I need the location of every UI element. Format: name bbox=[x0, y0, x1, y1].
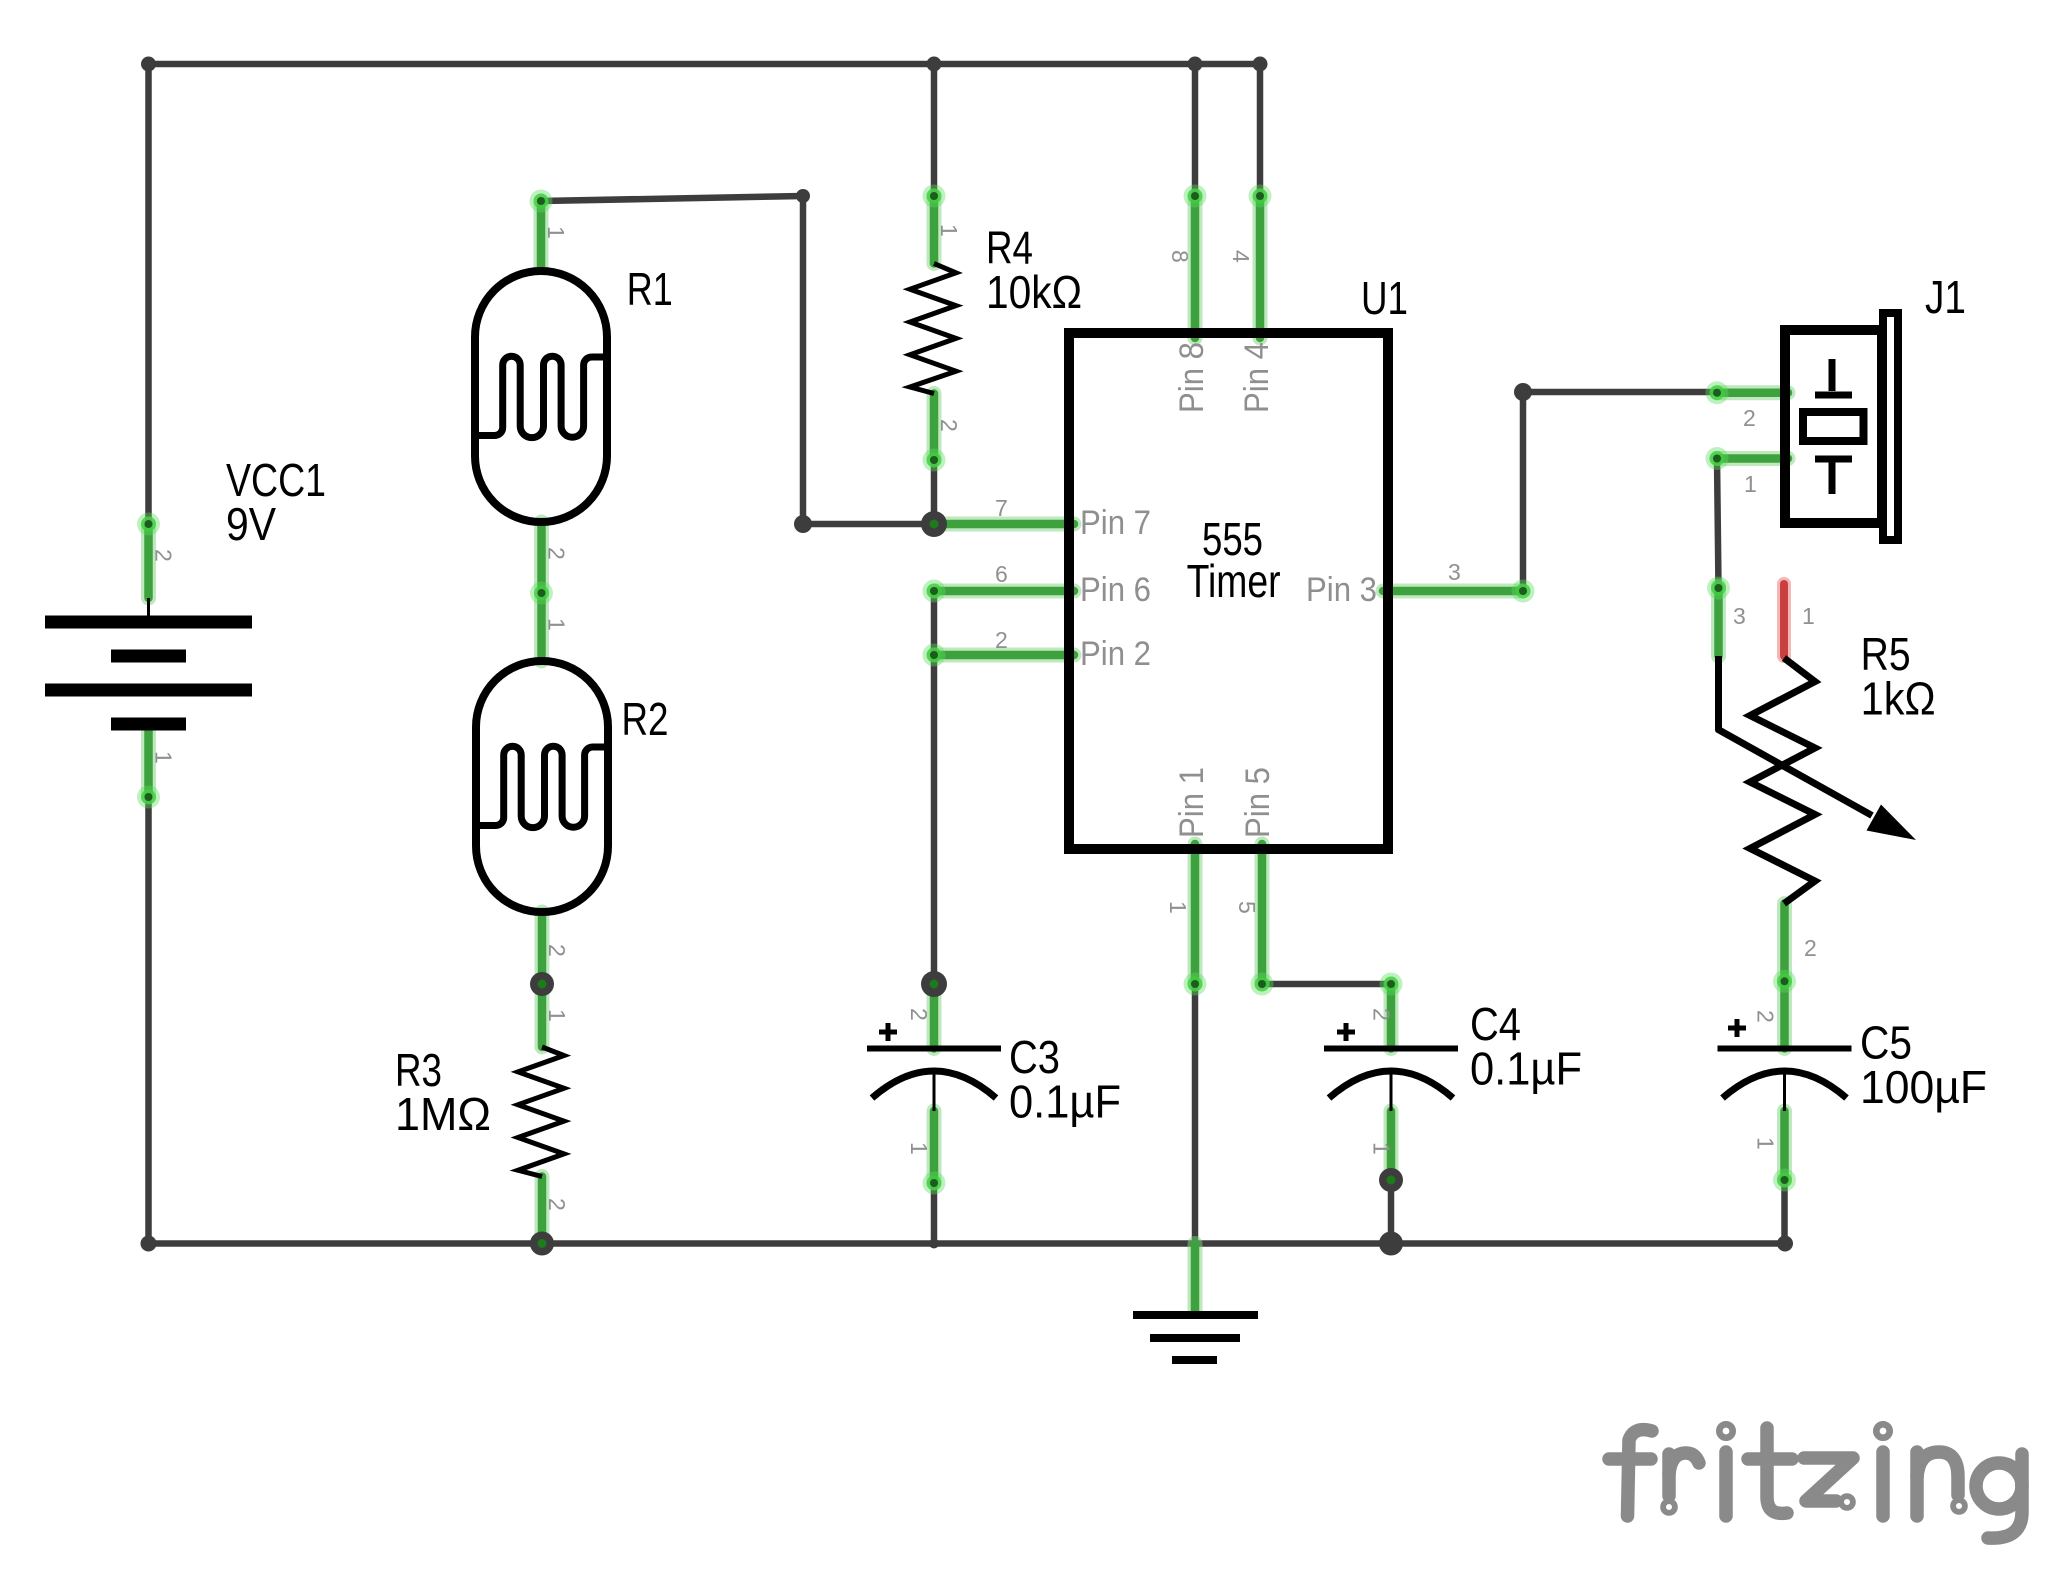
svg-text:2: 2 bbox=[151, 549, 177, 562]
svg-text:Pin 5: Pin 5 bbox=[1239, 767, 1277, 838]
svg-text:1: 1 bbox=[151, 751, 177, 764]
svg-text:0.1µF: 0.1µF bbox=[1009, 1076, 1121, 1128]
svg-text:R2: R2 bbox=[622, 693, 669, 745]
svg-text:2: 2 bbox=[1753, 1010, 1779, 1023]
svg-text:100µF: 100µF bbox=[1860, 1061, 1987, 1113]
svg-text:4: 4 bbox=[1228, 250, 1254, 263]
svg-text:Pin 1: Pin 1 bbox=[1173, 767, 1211, 838]
svg-text:8: 8 bbox=[1167, 250, 1193, 263]
svg-text:3: 3 bbox=[1733, 603, 1746, 629]
svg-text:3: 3 bbox=[1448, 559, 1461, 585]
svg-text:1: 1 bbox=[1744, 471, 1757, 497]
svg-text:2: 2 bbox=[544, 547, 570, 560]
svg-text:2: 2 bbox=[544, 1198, 570, 1211]
svg-text:2: 2 bbox=[995, 627, 1008, 653]
svg-text:Pin 8: Pin 8 bbox=[1173, 342, 1211, 413]
svg-text:Pin 4: Pin 4 bbox=[1238, 342, 1276, 413]
svg-text:10kΩ: 10kΩ bbox=[986, 266, 1082, 318]
svg-text:7: 7 bbox=[995, 495, 1008, 521]
svg-text:Pin 3: Pin 3 bbox=[1306, 571, 1377, 609]
svg-text:0.1µF: 0.1µF bbox=[1470, 1043, 1582, 1095]
svg-text:1: 1 bbox=[906, 1142, 932, 1155]
svg-text:1kΩ: 1kΩ bbox=[1861, 673, 1936, 725]
svg-text:2: 2 bbox=[936, 419, 962, 432]
svg-text:U1: U1 bbox=[1361, 272, 1408, 324]
svg-text:1: 1 bbox=[1753, 1137, 1779, 1150]
svg-text:1MΩ: 1MΩ bbox=[395, 1088, 491, 1140]
svg-text:1: 1 bbox=[544, 1009, 570, 1022]
svg-text:9V: 9V bbox=[226, 498, 276, 550]
svg-text:1: 1 bbox=[543, 226, 569, 239]
svg-text:2: 2 bbox=[1743, 405, 1756, 431]
svg-text:Timer: Timer bbox=[1187, 555, 1281, 607]
svg-text:1: 1 bbox=[1165, 901, 1191, 914]
svg-text:R1: R1 bbox=[627, 263, 673, 315]
svg-text:1: 1 bbox=[1369, 1142, 1395, 1155]
svg-text:J1: J1 bbox=[1925, 271, 1966, 323]
svg-text:2: 2 bbox=[1369, 1008, 1395, 1021]
svg-text:1: 1 bbox=[544, 618, 570, 631]
svg-text:2: 2 bbox=[544, 944, 570, 957]
svg-text:Pin 6: Pin 6 bbox=[1080, 571, 1151, 609]
svg-text:1: 1 bbox=[936, 224, 962, 237]
svg-text:Pin 2: Pin 2 bbox=[1080, 635, 1151, 673]
svg-text:6: 6 bbox=[995, 561, 1008, 587]
svg-text:2: 2 bbox=[1804, 935, 1817, 961]
svg-text:2: 2 bbox=[906, 1008, 932, 1021]
svg-text:5: 5 bbox=[1234, 901, 1260, 914]
svg-text:1: 1 bbox=[1802, 603, 1815, 629]
svg-text:Pin 7: Pin 7 bbox=[1080, 504, 1151, 542]
